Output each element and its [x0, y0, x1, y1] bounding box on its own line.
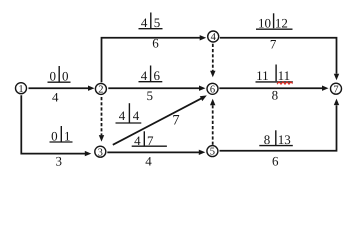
- svg-text:6: 6: [272, 153, 279, 168]
- svg-text:6: 6: [210, 84, 215, 95]
- arrowhead edge 5-7: [334, 99, 339, 106]
- wire edge 1-3: [21, 95, 85, 153]
- svg-text:1: 1: [18, 84, 23, 95]
- wire edge 3-6 diagonal: [113, 98, 202, 145]
- svg-text:5: 5: [154, 15, 161, 30]
- label edge 3-6 value 4|4: [116, 103, 142, 123]
- arrowhead edge 1-2: [88, 86, 95, 91]
- label edge 5-7 value 8|13: [259, 130, 293, 147]
- svg-text:6: 6: [152, 36, 159, 51]
- label edge 2-6 value 4|6: [139, 66, 163, 84]
- svg-text:4: 4: [141, 15, 148, 30]
- label edge 1-3 value 0|1: [50, 126, 73, 143]
- arrowhead edge 1-3: [85, 151, 92, 156]
- node 3: [95, 146, 106, 158]
- svg-text:3: 3: [55, 153, 62, 168]
- svg-text:11: 11: [256, 68, 269, 83]
- node 5: [207, 146, 218, 158]
- arrowhead edge 4-7: [334, 74, 339, 81]
- svg-text:13: 13: [278, 132, 291, 147]
- svg-text:5: 5: [210, 147, 215, 158]
- wire edge 2-6: [108, 87, 199, 89]
- svg-text:11: 11: [278, 68, 291, 83]
- svg-text:8: 8: [272, 87, 279, 102]
- svg-text:0: 0: [62, 69, 69, 84]
- arrowhead dashed 5-6: [210, 99, 215, 106]
- svg-text:6: 6: [154, 68, 161, 83]
- svg-text:5: 5: [147, 88, 154, 103]
- wire edge 2-4: [102, 38, 201, 83]
- node 2: [95, 83, 106, 95]
- wire edge 3-5: [107, 151, 199, 153]
- dashed edge 4-6: [212, 44, 214, 71]
- arrowhead edge 3-6: [200, 95, 207, 101]
- wire edge 4-7: [220, 38, 337, 74]
- svg-text:4: 4: [145, 153, 152, 168]
- node 7: [331, 83, 342, 95]
- svg-text:4: 4: [141, 68, 148, 83]
- arrowhead edge 2-4: [200, 35, 207, 40]
- svg-text:4: 4: [52, 90, 59, 105]
- svg-text:8: 8: [264, 132, 271, 147]
- svg-text:12: 12: [275, 16, 288, 31]
- svg-text:7: 7: [333, 84, 338, 95]
- arrowhead edge 2-6: [199, 86, 206, 91]
- svg-text:7: 7: [172, 113, 179, 129]
- dashed edge 5-6: [212, 105, 214, 145]
- svg-text:1: 1: [64, 128, 71, 143]
- svg-text:3: 3: [98, 147, 103, 158]
- label edge 3-5 value 4|7: [132, 131, 167, 148]
- svg-text:0: 0: [51, 128, 58, 143]
- svg-text:2: 2: [98, 85, 103, 96]
- dashed edge 2-3: [101, 97, 103, 135]
- svg-text:7: 7: [270, 37, 277, 52]
- spellcheck squiggle under 11: [277, 82, 293, 84]
- svg-text:4: 4: [133, 108, 140, 123]
- label edge 2-4 value 4|5: [139, 13, 163, 31]
- arrowhead edge 3-5: [199, 150, 206, 155]
- node 1: [16, 83, 27, 95]
- label edge 6-7 value 11|11: [256, 65, 293, 84]
- svg-text:4: 4: [211, 32, 217, 43]
- wire edge 5-7: [220, 105, 337, 151]
- node 4: [208, 31, 219, 43]
- label edge 1-2 value 0|0: [48, 66, 71, 84]
- svg-text:10: 10: [258, 16, 271, 31]
- wire edge 6-7: [219, 87, 322, 89]
- label edge 4-7 value 10|12: [256, 13, 293, 30]
- arrowhead edge 6-7: [322, 86, 329, 91]
- svg-text:0: 0: [50, 69, 57, 84]
- wire edge 1-2: [29, 87, 89, 89]
- arrowhead dashed 2-3: [99, 135, 104, 142]
- svg-text:4: 4: [119, 108, 126, 123]
- arrowhead dashed 4-6: [210, 71, 215, 78]
- node 6: [207, 83, 218, 95]
